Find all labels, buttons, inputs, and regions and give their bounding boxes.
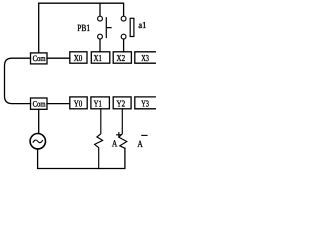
svg-text:X0: X0	[74, 53, 83, 63]
label A-	[137, 135, 147, 150]
pushbutton PB1	[98, 16, 111, 39]
load A+ (zigzag) under Y1	[95, 109, 103, 169]
svg-text:Com: Com	[33, 54, 46, 63]
terminal Y1	[91, 97, 110, 109]
terminal Y0	[70, 97, 87, 109]
svg-text:X2: X2	[117, 53, 126, 63]
svg-text:a1: a1	[138, 20, 146, 30]
svg-text:X1: X1	[94, 53, 102, 63]
terminal box com (output)	[31, 98, 48, 109]
svg-text:A: A	[112, 140, 118, 150]
label A+	[112, 133, 121, 150]
svg-text:Com: Com	[33, 99, 46, 108]
svg-text:X3: X3	[141, 53, 149, 63]
wire com output down to AC source	[38, 109, 40, 132]
svg-text:Y0: Y0	[74, 99, 83, 109]
svg-text:Y3: Y3	[141, 99, 149, 109]
wire com to Y0	[47, 103, 70, 105]
wire loop com input to com output	[5, 58, 31, 103]
AC source G	[30, 134, 45, 149]
wire drop from rail to PB1	[99, 3, 101, 16]
svg-text:Y1: Y1	[94, 99, 102, 109]
wire com to X0	[47, 57, 70, 59]
load A- (zigzag) under Y2	[119, 109, 127, 149]
terminal X2	[113, 52, 131, 63]
terminal X0	[70, 52, 87, 63]
svg-text:Y2: Y2	[117, 99, 126, 109]
contact a1	[121, 16, 134, 39]
wire top rail with drops to com1 and contact a1	[39, 3, 124, 53]
wire PB1 to X1	[99, 39, 101, 52]
terminal X1	[91, 52, 110, 63]
terminal Y3 (clipped at right edge)	[135, 97, 156, 109]
terminal Y2	[113, 97, 131, 109]
AC sine symbol	[33, 140, 42, 143]
wire AC source to bottom rail	[38, 148, 125, 168]
terminal box com (input)	[31, 53, 48, 64]
svg-text:PB1: PB1	[77, 24, 90, 34]
terminal X3 (clipped at right edge)	[135, 52, 156, 63]
svg-text:A: A	[137, 140, 143, 150]
wire a1 to X2	[123, 39, 125, 52]
